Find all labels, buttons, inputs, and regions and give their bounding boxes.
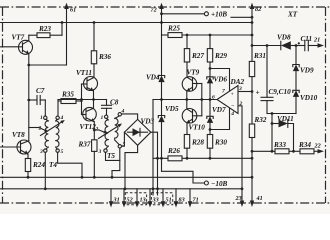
wire: T5 pin5 down then z to rail1	[112, 148, 120, 177]
svg-text:R33: R33	[273, 141, 286, 149]
svg-text:C11: C11	[301, 35, 313, 43]
wire: T5 pin5 to bridge left	[122, 132, 125, 146]
wire: bridge right corner down	[151, 132, 158, 195]
winding left	[105, 118, 108, 149]
wire: R29 node to op-amp pin7	[210, 69, 230, 92]
wire: VT7 emitter down to VT8 collector	[27, 54, 30, 141]
capacitor C7	[27, 87, 45, 116]
border right	[325, 7, 327, 203]
svg-text:+: +	[231, 92, 234, 98]
zener VD9	[293, 46, 314, 91]
wire: top +supply rail y22	[0, 22, 252, 24]
wire: VD8 output line	[252, 45, 281, 47]
terminal 71	[189, 189, 191, 204]
svg-text:23: 23	[235, 195, 242, 202]
svg-text:72: 72	[151, 7, 157, 14]
svg-text:VD5: VD5	[165, 105, 179, 113]
transformer T5	[94, 109, 125, 161]
svg-text:R24: R24	[32, 161, 45, 169]
svg-text:4: 4	[60, 115, 64, 121]
winding right	[56, 119, 59, 149]
svg-text:22: 22	[314, 143, 321, 150]
wire: emitter line y99.5	[58, 99, 107, 101]
resistor R36	[91, 21, 111, 77]
svg-text:VD6: VD6	[214, 76, 228, 84]
svg-text:R32: R32	[254, 116, 267, 124]
adjust arrow	[41, 122, 63, 136]
svg-text:R26: R26	[167, 147, 180, 155]
svg-text:13: 13	[140, 197, 146, 204]
terminal 51	[162, 189, 164, 204]
svg-text:XT: XT	[287, 11, 298, 19]
node: +12V chain down VD4/VD5	[161, 35, 163, 75]
resistor R24	[25, 159, 45, 179]
terminal 13	[136, 189, 138, 204]
terminal 33	[149, 189, 151, 204]
resistor R31	[249, 21, 266, 124]
svg-text:DA2: DA2	[230, 78, 245, 86]
svg-text:−10В: −10В	[211, 180, 228, 188]
svg-text:R36: R36	[98, 53, 111, 61]
wire: T4 pin5 elbow to rail1	[58, 152, 82, 177]
zener VD4	[146, 74, 165, 116]
svg-text:R23: R23	[38, 25, 51, 33]
svg-text:7: 7	[222, 89, 225, 95]
svg-text:+10В: +10В	[211, 11, 227, 19]
dashed group box 1	[125, 193, 146, 205]
diode VD11	[272, 115, 295, 153]
resistor R33	[252, 141, 300, 154]
wire: base bus VT9/VT10	[200, 84, 203, 116]
border top	[0, 6, 330, 8]
wire: zener bottom / cap bottom node	[267, 113, 296, 115]
svg-text:82: 82	[255, 6, 261, 13]
transistor VT12	[80, 100, 97, 140]
transistor VT7	[0, 34, 33, 55]
zener VD5	[158, 98, 179, 158]
svg-text:R37: R37	[78, 141, 91, 149]
zener VD6	[207, 67, 228, 116]
svg-text:83: 83	[179, 197, 185, 204]
svg-text:3: 3	[98, 149, 102, 155]
svg-text:VD7: VD7	[212, 106, 226, 114]
svg-text:VD9: VD9	[300, 67, 314, 75]
resistor R32	[249, 116, 267, 207]
wire: pin2 down to terminal 23	[238, 106, 242, 202]
resistor R34	[298, 141, 324, 154]
svg-text:VD8: VD8	[277, 34, 291, 42]
transistor VT11	[76, 69, 98, 101]
svg-text:R35: R35	[61, 91, 74, 99]
svg-text:1: 1	[101, 115, 104, 121]
terminal 52	[123, 189, 125, 204]
svg-text:R29: R29	[214, 52, 227, 60]
wire: VD7 to op-amp pin4	[210, 108, 230, 129]
transistor VT9	[182, 69, 202, 101]
winding left	[45, 119, 48, 149]
svg-text:5: 5	[61, 149, 64, 155]
bottom terminal arrows	[109, 189, 199, 208]
border bottom	[0, 202, 330, 204]
resistor R28	[184, 135, 204, 160]
svg-text:R30: R30	[214, 139, 227, 147]
svg-text:VT11: VT11	[76, 69, 92, 77]
svg-text:VD10: VD10	[300, 94, 318, 102]
op-amp DA2	[212, 78, 244, 117]
wire: base bus of VT11/VT12	[80, 84, 83, 115]
zener VD7	[207, 106, 226, 130]
wire: pin3 to R31/R32	[238, 91, 252, 93]
transformer T4	[29, 115, 65, 169]
terminal 31	[110, 189, 112, 204]
svg-text:T5: T5	[107, 152, 115, 160]
svg-text:31: 31	[113, 197, 120, 204]
diode VD8	[266, 34, 298, 50]
resistor R29	[207, 34, 227, 78]
svg-text:VT9: VT9	[187, 69, 200, 77]
svg-text:+: +	[256, 89, 260, 97]
wire: bridge bottom corner down	[125, 145, 138, 189]
svg-text:6: 6	[212, 95, 215, 101]
svg-text:21: 21	[313, 37, 320, 44]
terminal 82 arrow up	[250, 3, 261, 23]
resistor R37	[78, 129, 98, 179]
wire: T5 pin4 to bridge top	[122, 114, 138, 120]
capacitor C11	[296, 35, 324, 51]
wire: VT7 emitter to terminal 61 elbow	[29, 64, 67, 66]
wire: T5 pin3 elbow joins pin5	[106, 152, 120, 160]
terminal 83	[175, 189, 177, 204]
svg-text:52: 52	[127, 197, 133, 204]
resistor R26	[153, 147, 253, 161]
resistor R25	[162, 25, 183, 38]
svg-text:R28: R28	[191, 139, 204, 147]
terminal 61 arrow up	[64, 3, 76, 65]
wire: bottom rail 2	[0, 188, 242, 190]
terminal -10V stub	[162, 158, 228, 188]
svg-text:33: 33	[152, 197, 159, 204]
svg-text:3: 3	[39, 149, 43, 155]
svg-text:71: 71	[193, 197, 199, 204]
capacitor C8	[102, 99, 119, 115]
resistor R35	[58, 91, 82, 117]
wire: T4 pin3 down to rail2	[44, 152, 46, 188]
svg-text:VT10: VT10	[189, 124, 206, 132]
zener VD10	[293, 90, 318, 113]
adjust arrow	[99, 125, 120, 139]
svg-text:R31: R31	[253, 52, 266, 60]
border left	[2, 7, 4, 203]
resistor R23	[29, 21, 64, 37]
wire: second rail y35 (R25 output)	[182, 34, 252, 36]
wire: output line y99.5 to op-amp	[153, 99, 217, 101]
winding right	[115, 116, 120, 145]
wire: bottom rail 1	[0, 176, 252, 178]
svg-text:1: 1	[40, 115, 43, 121]
transistor VT10	[182, 100, 205, 135]
svg-text:R34: R34	[298, 141, 311, 149]
svg-text:C7: C7	[36, 87, 45, 95]
resistor R27	[184, 34, 204, 77]
svg-text:R25: R25	[167, 25, 180, 33]
svg-text:R27: R27	[191, 52, 204, 60]
svg-text:VT8: VT8	[12, 131, 25, 139]
bridge rectifier VD3	[122, 114, 159, 195]
svg-text:4: 4	[230, 111, 234, 117]
dashed group box 2	[151, 193, 172, 205]
svg-text:61: 61	[70, 7, 76, 14]
wire: VD11 branch vertical	[271, 112, 274, 153]
terminal 12 arrow up	[151, 3, 164, 35]
terminal +10V stub	[160, 11, 253, 24]
transistor VT8	[0, 131, 31, 159]
capacitor C9,C10	[256, 46, 292, 114]
svg-text:C9,C10: C9,C10	[269, 88, 292, 96]
resistor R30	[207, 130, 227, 160]
svg-text:T4: T4	[49, 161, 57, 169]
svg-text:41: 41	[256, 195, 263, 202]
svg-text:51: 51	[166, 197, 172, 204]
wire: T4 pin1 up to C7	[44, 115, 46, 118]
